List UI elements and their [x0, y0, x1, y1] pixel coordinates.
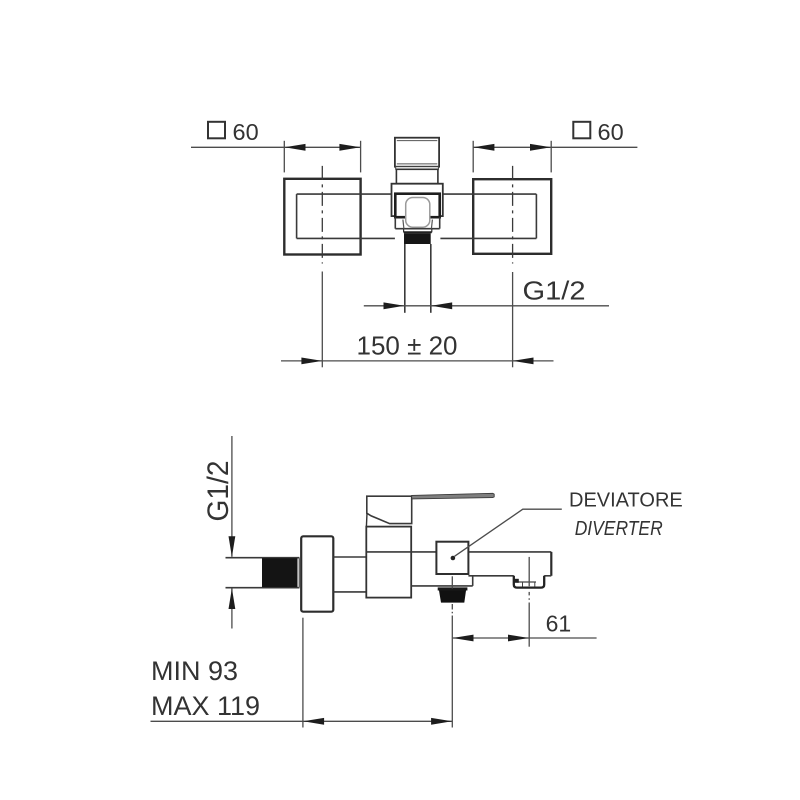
svg-text:G1/2: G1/2 — [202, 461, 235, 522]
svg-text:MIN 93: MIN 93 — [151, 656, 238, 686]
svg-text:60: 60 — [598, 119, 624, 145]
svg-text:MAX 119: MAX 119 — [151, 691, 260, 721]
svg-text:60: 60 — [233, 119, 259, 145]
svg-text:DIVERTER: DIVERTER — [575, 518, 663, 540]
svg-text:61: 61 — [546, 611, 572, 637]
svg-text:150 ± 20: 150 ± 20 — [357, 330, 458, 360]
svg-text:DEVIATORE: DEVIATORE — [569, 490, 683, 512]
svg-text:G1/2: G1/2 — [523, 275, 586, 305]
